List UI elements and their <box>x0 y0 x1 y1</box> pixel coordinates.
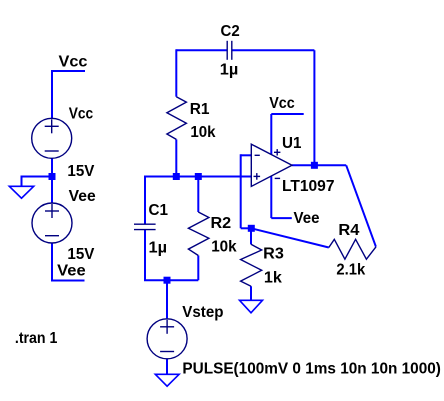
svg-text:C2: C2 <box>221 23 240 40</box>
svg-text:Vee: Vee <box>294 210 320 227</box>
svg-text:1k: 1k <box>264 269 282 286</box>
svg-text:10k: 10k <box>190 124 216 141</box>
svg-text:Vcc: Vcc <box>59 54 88 71</box>
svg-text:Vee: Vee <box>69 188 96 205</box>
svg-text:Vcc: Vcc <box>269 95 295 112</box>
svg-text:R2: R2 <box>211 215 232 232</box>
svg-text:10k: 10k <box>211 238 237 255</box>
svg-text:U1: U1 <box>282 135 302 152</box>
svg-text:2.1k: 2.1k <box>336 261 365 278</box>
svg-text:PULSE(100mV 0 1ms 10n 10n 1000: PULSE(100mV 0 1ms 10n 10n 1000) <box>182 361 441 378</box>
svg-text:R3: R3 <box>263 245 284 262</box>
svg-text:LT1097: LT1097 <box>282 178 335 195</box>
svg-text:R4: R4 <box>338 222 359 239</box>
svg-text:15V: 15V <box>67 163 95 180</box>
svg-text:C1: C1 <box>149 202 169 219</box>
svg-text:Vee: Vee <box>57 263 86 280</box>
svg-text:15V: 15V <box>67 246 95 263</box>
svg-text:.tran 1: .tran 1 <box>15 330 58 347</box>
svg-text:Vcc: Vcc <box>69 106 94 123</box>
svg-text:1µ: 1µ <box>149 239 168 256</box>
svg-text:1µ: 1µ <box>220 62 239 79</box>
svg-text:R1: R1 <box>190 101 210 118</box>
svg-text:Vstep: Vstep <box>182 304 223 321</box>
